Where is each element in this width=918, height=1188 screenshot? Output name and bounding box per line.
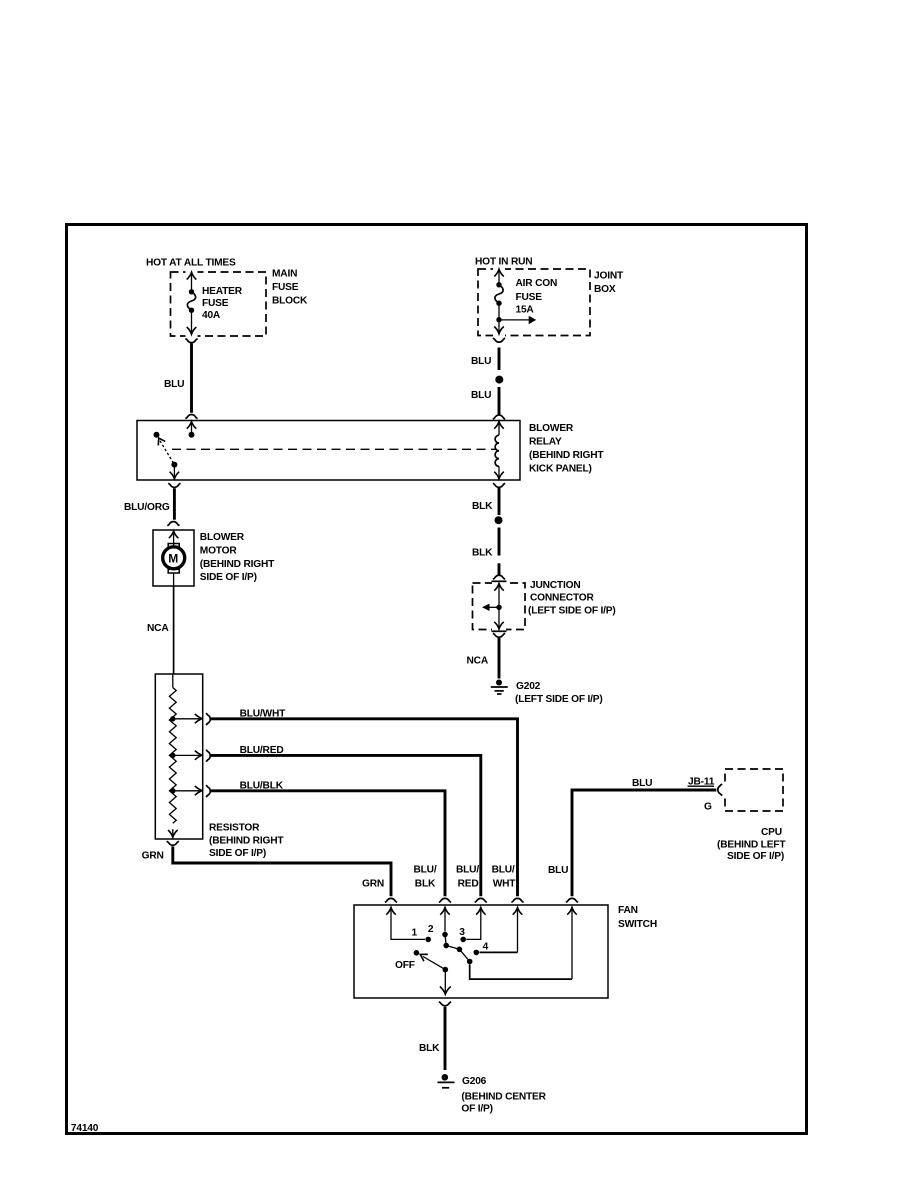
svg-text:(LEFT SIDE OF I/P): (LEFT SIDE OF I/P) [528, 605, 616, 616]
svg-text:2: 2 [428, 924, 434, 935]
svg-text:G202: G202 [516, 681, 541, 692]
svg-text:BLK: BLK [415, 878, 436, 889]
svg-text:CPU: CPU [761, 827, 782, 838]
svg-text:1: 1 [412, 928, 418, 939]
svg-text:4: 4 [483, 941, 489, 952]
svg-text:(BEHIND RIGHT: (BEHIND RIGHT [529, 450, 604, 461]
svg-text:BLU: BLU [471, 390, 491, 401]
svg-text:BLK: BLK [419, 1043, 440, 1054]
svg-text:BLU/: BLU/ [456, 864, 479, 875]
svg-text:WHT: WHT [493, 878, 517, 889]
svg-text:15A: 15A [516, 305, 535, 316]
svg-text:M: M [168, 552, 178, 566]
svg-text:(BEHIND RIGHT: (BEHIND RIGHT [200, 559, 275, 570]
svg-text:OF I/P): OF I/P) [461, 1104, 492, 1115]
svg-text:BLU: BLU [548, 865, 568, 876]
svg-text:3: 3 [459, 927, 465, 938]
svg-text:RESISTOR: RESISTOR [209, 823, 260, 834]
svg-text:G206: G206 [462, 1076, 487, 1087]
svg-text:(BEHIND CENTER: (BEHIND CENTER [461, 1091, 546, 1102]
svg-text:SIDE OF I/P): SIDE OF I/P) [727, 851, 784, 862]
svg-text:NCA: NCA [147, 623, 169, 634]
svg-text:FAN: FAN [618, 905, 638, 916]
svg-text:HEATER: HEATER [202, 286, 243, 297]
svg-text:BLK: BLK [472, 548, 493, 559]
svg-text:RED: RED [458, 878, 479, 889]
svg-text:BLU/ORG: BLU/ORG [124, 502, 170, 513]
svg-text:HOT IN RUN: HOT IN RUN [475, 257, 532, 268]
svg-text:G: G [704, 802, 712, 813]
svg-text:BLU/: BLU/ [414, 864, 437, 875]
svg-text:HOT AT ALL TIMES: HOT AT ALL TIMES [146, 258, 236, 269]
svg-text:JUNCTION: JUNCTION [530, 580, 580, 591]
svg-text:BLU: BLU [164, 379, 184, 390]
svg-text:BLOWER: BLOWER [200, 532, 245, 543]
svg-text:CONNECTOR: CONNECTOR [530, 593, 595, 604]
svg-text:BLOWER: BLOWER [529, 423, 574, 434]
svg-text:SIDE OF I/P): SIDE OF I/P) [200, 572, 257, 583]
svg-text:RELAY: RELAY [529, 437, 562, 448]
svg-text:AIR CON: AIR CON [516, 278, 558, 289]
svg-text:SIDE OF I/P): SIDE OF I/P) [209, 848, 266, 859]
svg-text:FUSE: FUSE [272, 282, 299, 293]
svg-text:OFF: OFF [395, 960, 415, 971]
svg-text:GRN: GRN [142, 850, 164, 861]
svg-text:BLU: BLU [471, 356, 491, 367]
svg-text:MAIN: MAIN [272, 269, 297, 280]
svg-text:JOINT: JOINT [594, 271, 624, 282]
svg-text:SWITCH: SWITCH [618, 919, 657, 930]
svg-text:BLOCK: BLOCK [272, 296, 308, 307]
svg-text:MOTOR: MOTOR [200, 545, 238, 556]
svg-text:(BEHIND LEFT: (BEHIND LEFT [717, 839, 786, 850]
svg-text:FUSE: FUSE [516, 292, 543, 303]
svg-text:(BEHIND RIGHT: (BEHIND RIGHT [209, 835, 284, 846]
svg-text:NCA: NCA [467, 656, 489, 667]
svg-text:KICK PANEL): KICK PANEL) [529, 464, 592, 475]
svg-text:GRN: GRN [362, 878, 384, 889]
svg-text:(LEFT SIDE OF I/P): (LEFT SIDE OF I/P) [515, 694, 603, 705]
svg-text:BOX: BOX [594, 284, 616, 295]
svg-text:BLK: BLK [472, 501, 493, 512]
svg-text:BLU: BLU [632, 778, 652, 789]
svg-text:FUSE: FUSE [202, 298, 229, 309]
svg-text:40A: 40A [202, 310, 221, 321]
svg-text:74140: 74140 [71, 1123, 99, 1134]
svg-text:BLU/: BLU/ [492, 864, 515, 875]
